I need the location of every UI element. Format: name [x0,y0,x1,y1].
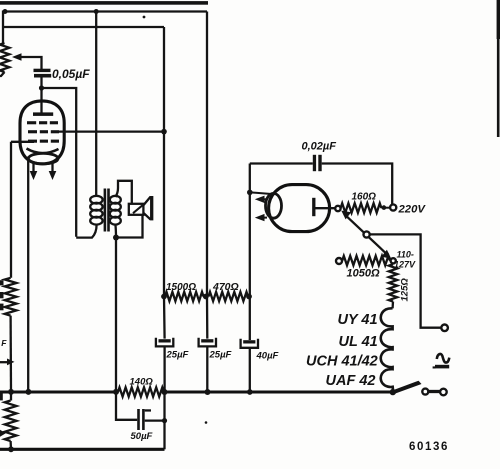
svg-text:UCH 41/42: UCH 41/42 [306,354,378,370]
svg-text:40µF: 40µF [256,351,279,362]
svg-text:127V: 127V [394,259,416,269]
svg-text:220V: 220V [398,204,427,216]
svg-text:50µF: 50µF [131,431,153,442]
svg-text:470Ω: 470Ω [212,281,239,293]
svg-text:0,02µF: 0,02µF [302,141,337,153]
svg-text:F: F [1,338,7,348]
svg-text:UAF 42: UAF 42 [326,373,376,389]
svg-text:UL 41: UL 41 [339,334,378,350]
svg-text:1500Ω: 1500Ω [166,282,196,293]
svg-text:0,05µF: 0,05µF [52,67,90,81]
svg-text:UY 41: UY 41 [338,312,378,328]
svg-text:60136: 60136 [409,441,449,453]
svg-text:110-: 110- [397,249,414,259]
svg-text:140Ω: 140Ω [130,376,154,387]
svg-text:25µF: 25µF [209,350,232,361]
svg-text:25µF: 25µF [166,350,189,361]
svg-text:1050Ω: 1050Ω [347,268,380,280]
svg-text:160Ω: 160Ω [352,192,377,203]
svg-text:125Ω: 125Ω [400,278,411,302]
